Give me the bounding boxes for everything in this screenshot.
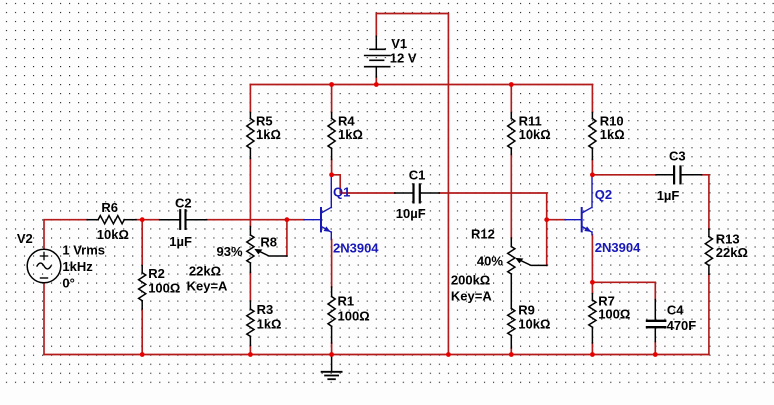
ground [322,355,342,380]
svg-text:10µF: 10µF [396,206,426,221]
wire Q2 base stub [547,219,565,221]
capacitor C3 [656,148,702,203]
svg-text:12 V: 12 V [390,50,417,65]
wire R8 to R3 [249,272,251,301]
wire R6 to C2 [136,219,160,221]
junction Q2 base-R12 wiper [544,217,549,222]
svg-text:Key=A: Key=A [187,279,228,294]
svg-text:1kΩ: 1kΩ [257,317,282,332]
wire ground bus [44,354,709,356]
junction bus-R9 [509,352,514,357]
transistor Q2 [565,176,641,255]
wire C4 to bus [654,342,656,355]
capacitor C1 [395,167,440,220]
svg-text:R3: R3 [257,302,274,317]
resistor R2 [139,266,181,309]
svg-text:Q1: Q1 [333,185,350,200]
potentiometer R12 [451,226,547,308]
wire R1 to bus [331,343,333,355]
svg-text:93%: 93% [217,244,243,259]
wire C1 to R12 wiper [439,193,546,265]
junction bus-R7 [590,352,595,357]
wire Q2 emitter node to C4 [592,282,655,299]
junction bus-V1 loop [446,352,451,357]
wire Q2 collector node to C3 [592,174,656,176]
junction Q2 emitter-C4 [590,280,595,285]
wire Q2 emitter to R7 [591,235,593,294]
junction rail-R11 [509,82,514,87]
svg-text:470F: 470F [667,318,697,333]
svg-text:C2: C2 [175,195,192,210]
svg-text:100Ω: 100Ω [338,309,370,324]
wire rail to R11 [510,85,512,113]
resistor R6 [87,200,136,242]
svg-text:C3: C3 [669,148,686,163]
svg-text:V1: V1 [391,36,407,51]
svg-text:1 Vrms: 1 Vrms [62,243,105,258]
dc source V1 [365,36,417,77]
svg-text:2N3904: 2N3904 [333,241,379,256]
wire C3 to R13 [702,175,709,229]
wire R10 to Q2 collector node [591,160,593,175]
svg-text:R13: R13 [716,231,740,246]
svg-text:10kΩ: 10kΩ [519,127,551,142]
wire R9 to bus [510,348,512,355]
svg-text:1kHz: 1kHz [62,259,93,274]
wire R4 to Q1 collector node [331,160,333,175]
resistor R3 [247,301,282,346]
junction bus-ground [329,352,334,357]
junction rail-R4 [329,82,334,87]
svg-text:R8: R8 [260,234,277,249]
junction Q2 collector [590,172,595,177]
junction Q1 base-R8 wiper [285,217,290,222]
svg-text:V2: V2 [17,231,33,246]
wire Q1 collector node jog to C1 [332,175,395,193]
wire V1 top stub [375,14,377,37]
wire V2 to R6 [44,220,87,250]
resistor R11 [508,113,551,155]
wire R13 to bus [708,274,710,354]
wire rail to R4 [331,85,333,113]
wire R5 to R8 [249,159,251,227]
wire R2 to bus [141,309,143,355]
wire R7 to bus [591,343,593,355]
wire R11 to R12 [510,155,512,239]
svg-text:1µF: 1µF [657,188,680,203]
resistor R1 [328,287,370,343]
transistor Q1 [304,176,379,256]
junction Q1 collector [329,172,334,177]
wire top loop V1 to ground rail [376,14,448,355]
resistor R7 [589,294,631,343]
wire V2 to bus [43,283,45,355]
potentiometer R8 [187,227,287,294]
svg-text:1µF: 1µF [169,234,192,249]
wire C2 to Q1 base [207,219,304,221]
wire V1 bottom stub [375,77,377,85]
resistor R5 [247,113,281,159]
svg-text:0°: 0° [62,275,74,290]
junction bus-R3 [248,352,253,357]
svg-text:1kΩ: 1kΩ [338,127,363,142]
svg-text:200kΩ: 200kΩ [451,273,490,288]
svg-text:2N3904: 2N3904 [595,240,641,255]
svg-text:R6: R6 [101,200,118,215]
wire +12V rail [250,84,592,86]
junction rail-V1 [374,82,379,87]
ac source V2 [17,231,105,290]
svg-text:10kΩ: 10kΩ [518,316,550,331]
junction bus-R2 [140,352,145,357]
svg-text:40%: 40% [477,254,503,269]
svg-text:22kΩ: 22kΩ [716,245,748,260]
svg-text:R2: R2 [148,266,165,281]
svg-text:C1: C1 [409,167,426,182]
svg-text:Q2: Q2 [595,187,612,202]
wire rail to R10 [591,85,593,113]
wire Q1 emitter to R1 [331,240,333,288]
capacitor C2 [160,195,207,248]
svg-text:22kΩ: 22kΩ [189,264,221,279]
svg-text:1kΩ: 1kΩ [600,127,625,142]
svg-text:R1: R1 [338,294,355,309]
svg-text:100Ω: 100Ω [148,281,180,296]
junction bus-C4 [653,352,658,357]
capacitor C4 [647,300,696,342]
wire Q1 base node to R8 wiper [286,220,288,256]
svg-text:1kΩ: 1kΩ [256,127,281,142]
resistor R9 [508,303,551,348]
svg-text:100Ω: 100Ω [598,306,630,321]
wire R3 to bus [249,346,251,355]
svg-text:R12: R12 [471,226,495,241]
svg-text:Key=A: Key=A [451,289,492,304]
resistor R4 [328,113,363,160]
svg-text:10kΩ: 10kΩ [97,227,129,242]
resistor R10 [589,113,625,160]
resistor R13 [705,229,748,274]
junction R6-R2 [140,217,145,222]
wire node to R2 [141,220,143,266]
svg-text:C4: C4 [667,302,684,317]
wire rail to R5 [249,85,251,113]
